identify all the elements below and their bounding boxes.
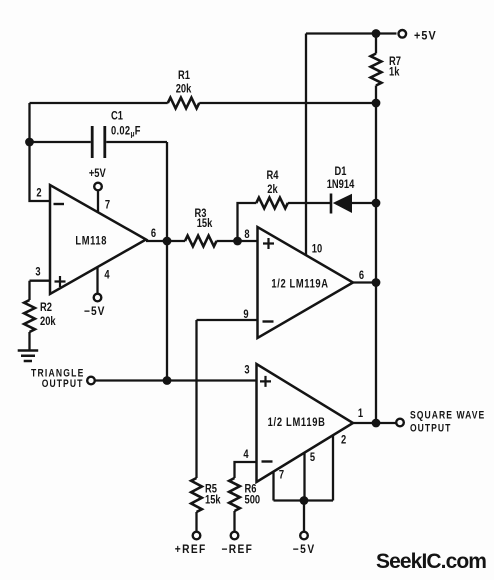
wire LM119A output: [353, 281, 376, 283]
svg-text:R2: R2: [40, 301, 52, 314]
wire R7 leads: [375, 34, 377, 104]
svg-text:15k: 15k: [197, 217, 213, 230]
svg-text:C1: C1: [111, 109, 123, 122]
svg-text:500: 500: [245, 493, 261, 506]
svg-text:8: 8: [244, 228, 249, 241]
svg-text:1: 1: [358, 407, 363, 420]
wire R4 branch up: [238, 203, 257, 241]
capacitor C1: [92, 126, 105, 158]
wire bottom strap pins 7-5-2: [274, 499, 334, 501]
terminal square wave output: [396, 419, 404, 427]
op-amp U1 LM118: [50, 185, 146, 294]
svg-text:D1: D1: [335, 165, 347, 178]
svg-text:2: 2: [341, 433, 346, 446]
svg-text:SeekIC.com: SeekIC.com: [376, 550, 486, 573]
svg-text:+REF: +REF: [175, 543, 207, 556]
junction square wave node: [372, 419, 381, 428]
junction LM118 out / feedback: [163, 237, 172, 246]
terminal -5V bottom: [300, 532, 308, 540]
wire C1 leads: [30, 141, 168, 143]
svg-text:15k: 15k: [205, 493, 221, 506]
junction R1 / R7 / rail: [372, 99, 381, 108]
svg-text:5: 5: [310, 451, 315, 464]
svg-text:SQUARE WAVE: SQUARE WAVE: [410, 410, 485, 422]
resistor R3: [185, 236, 217, 247]
terminal -5V pin4: [94, 294, 102, 302]
svg-text:4: 4: [104, 268, 109, 281]
terminal -REF: [231, 532, 239, 540]
wire R2 leads: [28, 281, 30, 350]
svg-text:6: 6: [359, 269, 364, 282]
svg-text:4: 4: [243, 448, 248, 461]
terminal +REF: [193, 532, 201, 540]
wire LM119B output to terminal: [353, 422, 396, 424]
svg-text:LM118: LM118: [75, 234, 107, 247]
svg-text:2k: 2k: [267, 183, 277, 196]
wire -5V drop: [303, 501, 305, 532]
svg-text:1/2 LM119B: 1/2 LM119B: [268, 416, 326, 429]
wire right vertical rail: [375, 103, 377, 423]
resistor R5: [191, 478, 202, 512]
junction top rail / R7: [372, 29, 381, 38]
wire left loop down to pin 2: [30, 103, 51, 201]
wire pin 5 drop: [303, 453, 305, 501]
svg-text:7: 7: [105, 198, 110, 211]
svg-text:OUTPUT: OUTPUT: [42, 378, 84, 390]
resistor R7: [371, 54, 382, 86]
wire pin 7 drop: [272, 472, 274, 501]
svg-text:1k: 1k: [389, 65, 399, 78]
svg-text:R4: R4: [267, 169, 279, 182]
terminal +5V pin7: [94, 183, 102, 191]
wire pin 9 row: [197, 319, 258, 321]
wire R4 to D1: [288, 202, 330, 204]
wire pin 4 to R6 to -REF: [235, 462, 257, 532]
resistor R2: [24, 300, 35, 332]
wire D1 to rail: [352, 202, 376, 204]
wire pin 10 supply drop to LM119A: [305, 34, 307, 256]
wire R1 row from left loop to right rail: [30, 102, 377, 104]
wire top +5V rail: [306, 32, 397, 34]
svg-text:+5V: +5V: [414, 30, 437, 43]
wire feedback vertical C1 to triangle output: [166, 142, 168, 381]
svg-text:−REF: −REF: [222, 543, 254, 556]
junction left loop / C1: [25, 138, 34, 147]
wire triangle output row to pin 3: [95, 379, 257, 381]
resistor R4: [256, 198, 288, 209]
svg-text:1/2 LM119A: 1/2 LM119A: [271, 277, 328, 290]
svg-text:10: 10: [312, 242, 322, 255]
svg-text:−5V: −5V: [293, 543, 316, 556]
svg-text:OUTPUT: OUTPUT: [410, 423, 451, 435]
svg-text:6: 6: [151, 227, 156, 240]
junction LM119A out / rail: [372, 278, 381, 287]
wire LM118 output row / R3 leads: [146, 240, 258, 242]
junction R3 / R4 / pin 8: [233, 237, 242, 246]
svg-text:0.02μF: 0.02μF: [111, 124, 141, 138]
wire pin 3 stub: [30, 280, 51, 282]
svg-text:R1: R1: [178, 69, 190, 82]
wire pin 9 drop to R5 and +REF: [195, 320, 197, 532]
resistor R1: [168, 98, 199, 109]
svg-text:−5V: −5V: [84, 305, 105, 318]
junction feedback / triangle output row: [163, 376, 172, 385]
wire LM118 pin 7 supply lead: [97, 190, 99, 213]
svg-text:1N914: 1N914: [327, 178, 355, 191]
terminal +5V supply: [399, 30, 407, 38]
junction D1 / rail: [372, 199, 381, 208]
svg-text:+5V: +5V: [89, 167, 107, 180]
comparator U2 1/2 LM119A: [258, 227, 354, 338]
svg-text:20k: 20k: [176, 82, 192, 95]
junction -5V strap: [300, 496, 309, 505]
svg-text:20k: 20k: [40, 315, 56, 328]
comparator U3 1/2 LM119B: [257, 364, 354, 482]
svg-text:3: 3: [244, 363, 249, 376]
svg-text:3: 3: [35, 265, 40, 278]
resistor R6: [229, 478, 240, 511]
terminal triangle output: [87, 377, 95, 385]
wire pin 2 drop: [332, 435, 334, 500]
ground: [18, 351, 39, 362]
svg-text:2: 2: [36, 186, 41, 199]
wire LM118 pin 4 supply lead: [96, 267, 98, 294]
svg-text:9: 9: [243, 308, 248, 321]
diode D1 1N914: [330, 194, 333, 214]
svg-text:7: 7: [279, 468, 284, 481]
